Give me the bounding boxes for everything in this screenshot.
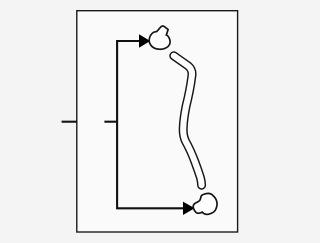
tube (curved duct) white core xyxy=(174,56,202,185)
input port stub (outside box) xyxy=(62,121,78,123)
bottom blob (pouch with neck to left) xyxy=(193,193,217,214)
top blob (pouch with neck up-right) xyxy=(149,26,170,49)
wire: branch trunk with top and bottom runs xyxy=(117,41,184,208)
inner port stub xyxy=(104,121,117,123)
arrowhead into top blob xyxy=(139,34,150,47)
subsystem box U1 xyxy=(77,11,238,232)
arrowhead into bottom blob xyxy=(183,202,195,215)
tube (curved duct) outer outline xyxy=(174,56,202,185)
